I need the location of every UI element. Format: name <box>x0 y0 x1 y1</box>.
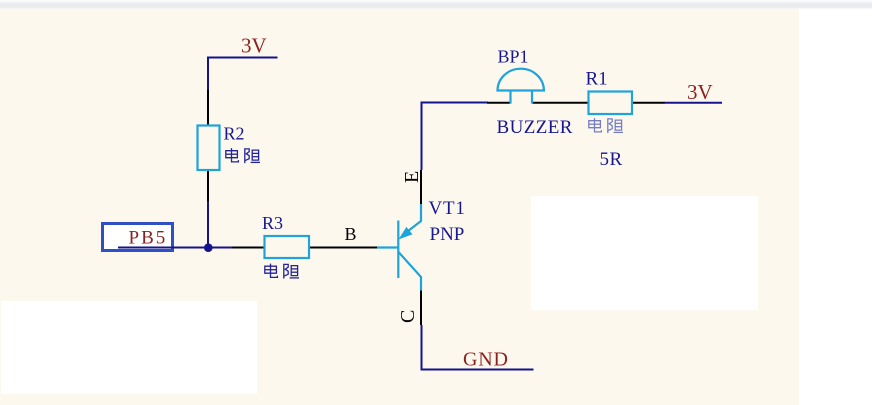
svg-text:VT1: VT1 <box>429 198 466 219</box>
svg-text:GND: GND <box>463 349 509 371</box>
svg-text:R3: R3 <box>262 213 283 233</box>
svg-text:R2: R2 <box>224 124 245 144</box>
svg-text:E: E <box>401 171 423 183</box>
svg-text:5R: 5R <box>600 149 623 170</box>
svg-text:BP1: BP1 <box>498 47 529 67</box>
svg-text:C: C <box>397 310 419 323</box>
svg-text:3V: 3V <box>687 80 713 104</box>
svg-text:R1: R1 <box>586 69 608 90</box>
svg-text:PNP: PNP <box>430 224 465 245</box>
svg-text:PB5: PB5 <box>129 228 168 249</box>
svg-text:BUZZER: BUZZER <box>497 117 573 138</box>
svg-text:B: B <box>345 224 357 244</box>
svg-text:3V: 3V <box>241 34 267 58</box>
